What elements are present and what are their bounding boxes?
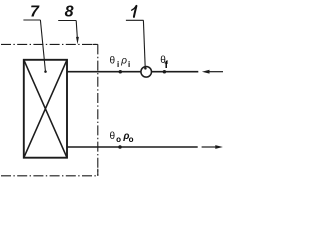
inflow arrow (points left) <box>202 70 223 74</box>
svg-text:ρ: ρ <box>120 56 127 67</box>
svg-text:θ: θ <box>110 56 116 67</box>
svg-text:θ: θ <box>110 131 116 142</box>
svg-text:i: i <box>117 60 119 69</box>
boundary corner joins <box>93 44 98 175</box>
node dot theta-i <box>119 70 123 74</box>
outflow arrow (points right) <box>202 145 223 149</box>
boundary dash-dot bottom <box>1 175 98 177</box>
svg-text:o: o <box>116 135 121 144</box>
sensor circle 1 <box>141 67 152 78</box>
text theta-o rho-o <box>110 131 134 144</box>
text theta-f <box>160 55 168 71</box>
svg-text:i: i <box>128 60 130 69</box>
leader from 8 with arrowhead <box>76 21 77 38</box>
wire bottom pipe <box>67 146 198 148</box>
svg-text:8: 8 <box>65 3 74 20</box>
label 7 underline <box>23 19 40 21</box>
leader dot inside circle <box>144 67 147 70</box>
svg-text:o: o <box>129 135 134 144</box>
node dot theta-f <box>163 70 167 74</box>
svg-text:f: f <box>165 59 169 71</box>
boundary dash-dot top <box>1 43 98 45</box>
wire top pipe right segment <box>152 71 199 73</box>
leader from 7 <box>40 20 45 71</box>
wire top pipe left segment <box>67 71 141 73</box>
heat exchanger box 7 <box>24 60 67 158</box>
label 1 underline <box>126 19 144 21</box>
boundary dash-dot right <box>97 44 99 175</box>
svg-text:7: 7 <box>30 3 40 20</box>
node dot theta-o <box>118 145 122 149</box>
label 1 <box>132 6 137 10</box>
label 8 underline <box>58 20 76 22</box>
text theta-i rho-i <box>110 56 131 69</box>
leader from 1 <box>143 20 145 67</box>
